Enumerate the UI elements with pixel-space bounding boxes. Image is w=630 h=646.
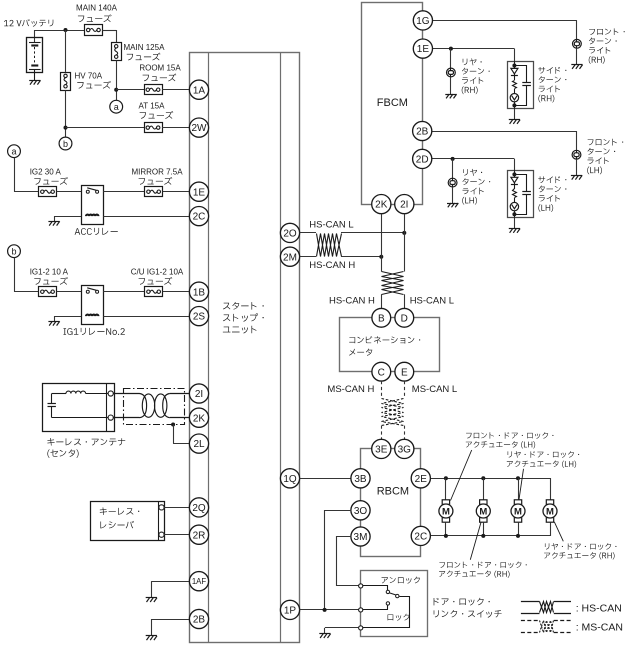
ground <box>146 598 157 603</box>
wire <box>300 478 351 480</box>
pin 2I start-stop unit <box>189 384 208 403</box>
pin D combination meter <box>395 308 414 327</box>
svg-text:2I: 2I <box>195 389 203 400</box>
pin E combination meter <box>395 362 414 381</box>
pin 2L start-stop unit <box>189 434 208 453</box>
pin 1AF start-stop unit <box>189 572 208 591</box>
node junction <box>402 231 406 235</box>
pin 3E RBCM <box>372 439 391 458</box>
svg-text:MS-CAN H: MS-CAN H <box>327 384 374 395</box>
wire <box>54 216 81 218</box>
svg-text:E: E <box>401 367 408 378</box>
switch terminal <box>359 626 363 630</box>
svg-text:M: M <box>442 506 450 517</box>
wire <box>433 48 515 50</box>
wire <box>103 191 144 193</box>
wire <box>163 191 190 193</box>
svg-text:: HS-CAN: : HS-CAN <box>576 602 622 614</box>
node a <box>110 100 123 113</box>
svg-text:: MS-CAN: : MS-CAN <box>576 622 623 634</box>
node b <box>59 137 72 150</box>
svg-text:C/U IG1-2 10A: C/U IG1-2 10A <box>131 268 184 277</box>
wire <box>65 90 67 137</box>
svg-text:MAIN 140A: MAIN 140A <box>76 4 118 13</box>
svg-text:2D: 2D <box>416 155 429 166</box>
wire <box>116 89 144 91</box>
ground <box>571 175 582 179</box>
wire MS-CAN <box>381 426 383 440</box>
node junction <box>451 157 455 161</box>
keyless antenna box <box>43 384 115 432</box>
wire <box>54 316 81 318</box>
svg-text:1Q: 1Q <box>283 474 297 485</box>
wire <box>404 233 406 272</box>
start-stop unit box <box>190 53 300 643</box>
svg-text:HS-CAN L: HS-CAN L <box>309 220 353 231</box>
svg-text:2B: 2B <box>416 127 429 138</box>
wire <box>341 256 381 258</box>
switch unlock label <box>382 577 420 584</box>
switch blade <box>390 593 397 595</box>
svg-text:1P: 1P <box>284 606 297 617</box>
wire <box>450 77 452 94</box>
svg-text:M: M <box>546 506 554 517</box>
wire <box>300 232 316 234</box>
svg-text:3G: 3G <box>398 445 412 456</box>
twisted pair HS-CAN vertical <box>382 272 404 295</box>
svg-text:1B: 1B <box>193 287 206 298</box>
pin 2I FBCM <box>395 195 414 214</box>
pin 1E FBCM <box>413 39 432 58</box>
svg-text:1E: 1E <box>417 44 430 55</box>
svg-text:1AF: 1AF <box>192 577 207 586</box>
wire <box>164 534 190 536</box>
lamp rear turn light LH <box>448 178 457 187</box>
node junction <box>444 534 448 538</box>
wire <box>325 627 359 629</box>
fuse MIRROR 7.5A <box>145 187 163 197</box>
svg-text:B: B <box>378 313 385 324</box>
wire <box>445 522 447 536</box>
front door lock actuator LH label <box>466 432 553 439</box>
wire MS-CAN <box>404 426 406 440</box>
svg-text:2W: 2W <box>192 123 208 134</box>
wire <box>452 187 454 203</box>
wire pointer <box>451 450 472 501</box>
svg-text:ROOM 15A: ROOM 15A <box>139 63 181 72</box>
pin 2M start-stop unit <box>280 247 299 266</box>
svg-text:2K: 2K <box>375 200 388 211</box>
wire MS-CAN <box>381 381 383 398</box>
svg-text:2R: 2R <box>193 530 206 541</box>
pin 1Q start-stop unit <box>280 469 299 488</box>
svg-text:1E: 1E <box>193 187 206 198</box>
svg-text:D: D <box>401 313 408 324</box>
wire <box>300 256 316 258</box>
wire <box>151 619 189 621</box>
pin 2O start-stop unit <box>280 223 299 242</box>
wire <box>162 89 190 91</box>
wire <box>576 159 578 175</box>
side turn light RH <box>508 61 534 108</box>
door lock link switch label <box>434 598 490 606</box>
svg-text:3B: 3B <box>354 474 367 485</box>
pin 2R start-stop unit <box>189 525 208 544</box>
relay ACC <box>82 186 104 225</box>
rear turn light LH label <box>463 169 482 176</box>
svg-text:C: C <box>378 367 385 378</box>
wire <box>103 291 144 293</box>
wire <box>518 478 520 500</box>
wire <box>66 127 145 129</box>
legend HS-CAN twisted pair <box>521 602 571 614</box>
rear door lock actuator LH label <box>508 451 580 458</box>
svg-text:HS-CAN H: HS-CAN H <box>329 295 375 306</box>
relay IG1 No.2 label <box>63 328 124 335</box>
svg-text:3M: 3M <box>354 532 368 543</box>
wire <box>404 214 406 233</box>
relay ACC label <box>75 228 118 235</box>
svg-text:2E: 2E <box>415 474 428 485</box>
battery B1 <box>27 38 43 81</box>
node junction <box>323 608 327 612</box>
capacitor antenna <box>48 394 109 418</box>
wire <box>163 291 190 293</box>
side turn light LH label <box>538 176 566 183</box>
wire <box>576 48 578 64</box>
fuse MAIN 125A <box>112 43 122 61</box>
pin 3B RBCM <box>351 469 370 488</box>
FBCM box <box>362 3 423 205</box>
motor rear door lock actuator RH <box>543 500 557 522</box>
pin B combination meter <box>372 308 391 327</box>
pin 2E RBCM <box>411 469 430 488</box>
inductor antenna coil <box>52 391 108 393</box>
wire <box>433 20 577 22</box>
pin 1G FBCM <box>413 11 432 30</box>
wire <box>404 294 406 308</box>
switch contact <box>396 594 399 597</box>
wire <box>363 609 388 611</box>
pin 1A start-stop unit <box>189 80 208 99</box>
svg-text:HS-CAN H: HS-CAN H <box>309 260 355 271</box>
node junction <box>481 476 485 480</box>
svg-text:2K: 2K <box>193 413 206 424</box>
wire <box>151 581 189 583</box>
lamp front turn light RH <box>573 39 582 48</box>
wire <box>381 257 383 272</box>
wire <box>514 218 516 229</box>
motor front door lock actuator RH <box>476 500 490 522</box>
switch terminal <box>359 584 363 588</box>
wire pointer <box>519 469 524 500</box>
motor rear door lock actuator LH <box>511 500 525 522</box>
fuse ROOM 15A <box>145 85 163 95</box>
svg-text:2C: 2C <box>193 212 206 223</box>
front door lock actuator RH label <box>439 562 526 569</box>
node junction <box>481 534 485 538</box>
svg-text:MS-CAN L: MS-CAN L <box>412 384 457 395</box>
legend MS-CAN twisted pair <box>521 621 571 633</box>
ground <box>29 80 40 84</box>
svg-text:RBCM: RBCM <box>377 485 409 497</box>
ground <box>48 221 59 225</box>
keyless receiver box <box>91 501 165 540</box>
svg-text:MAIN 125A: MAIN 125A <box>124 43 166 52</box>
relay IG1 No.2 <box>82 286 104 325</box>
svg-text:2M: 2M <box>283 252 297 263</box>
pin 3O RBCM <box>351 501 370 520</box>
svg-text:1G: 1G <box>416 16 430 27</box>
svg-text:2Q: 2Q <box>192 503 206 514</box>
wire pointer <box>554 522 563 542</box>
wire <box>450 49 452 69</box>
switch terminal <box>359 608 363 612</box>
fuse MAIN 140A <box>85 25 103 36</box>
RBCM box <box>361 449 421 557</box>
pin 2S start-stop unit <box>189 307 208 326</box>
wire <box>431 479 551 500</box>
svg-text:HV 70A: HV 70A <box>75 72 103 81</box>
wire <box>103 216 189 218</box>
wire <box>325 511 352 610</box>
svg-text:2L: 2L <box>193 439 205 450</box>
fuse C/U IG1-2 10A <box>145 287 163 297</box>
pin 2D FBCM <box>413 149 432 168</box>
wire <box>431 523 551 536</box>
wire <box>173 425 175 444</box>
fuse AT 15A <box>145 123 163 133</box>
wire <box>300 609 359 611</box>
wire <box>116 61 118 101</box>
node junction <box>516 476 520 480</box>
wire <box>381 294 383 308</box>
lamp front turn light LH <box>572 150 581 159</box>
wire <box>445 478 447 500</box>
pin 2B FBCM <box>413 121 432 140</box>
svg-text:2I: 2I <box>400 200 408 211</box>
svg-text:3E: 3E <box>375 445 388 456</box>
wire <box>518 522 520 536</box>
svg-text:3O: 3O <box>354 506 368 517</box>
rear door lock actuator RH label <box>545 543 617 550</box>
svg-text:HS-CAN L: HS-CAN L <box>410 295 454 306</box>
wire <box>57 191 82 193</box>
wire <box>337 537 359 586</box>
pin 1P start-stop unit <box>280 600 299 619</box>
svg-text:AT 15A: AT 15A <box>139 101 166 110</box>
wire <box>363 597 410 628</box>
wire MS-CAN <box>404 381 406 398</box>
motor front door lock actuator LH <box>439 500 453 522</box>
ground <box>447 203 458 207</box>
twisted pair HS-CAN <box>317 234 342 257</box>
front turn light RH label <box>589 28 625 35</box>
node junction <box>114 88 118 92</box>
combination meter box <box>340 318 440 372</box>
door lock link switch box <box>361 571 428 637</box>
pin C combination meter <box>372 362 391 381</box>
node junction <box>64 126 68 130</box>
svg-text:1A: 1A <box>193 85 206 96</box>
twisted pair antenna <box>113 394 189 418</box>
shield box <box>124 389 185 425</box>
wire <box>14 158 16 192</box>
pin 3M RBCM <box>351 527 370 546</box>
pin 2K FBCM <box>372 195 391 214</box>
pin 2C start-stop unit <box>189 207 208 226</box>
fuse HV 70A <box>61 73 71 91</box>
side turn light RH label <box>538 67 566 74</box>
rear turn light RH label <box>463 58 482 65</box>
fuse IG1-2 10A <box>39 287 57 297</box>
wire <box>341 232 404 234</box>
node junction <box>449 47 453 51</box>
wire <box>483 478 485 500</box>
svg-text:M: M <box>514 506 522 517</box>
keyless receiver label <box>100 507 140 515</box>
ground <box>48 321 59 325</box>
node junction <box>379 255 383 259</box>
pin 2C RBCM <box>411 526 430 545</box>
front turn light LH label <box>588 139 624 146</box>
svg-text:b: b <box>63 139 68 149</box>
node shield junction <box>171 423 175 427</box>
svg-text:M: M <box>479 506 487 517</box>
ground <box>509 229 520 233</box>
battery label <box>4 19 53 27</box>
node junction <box>64 28 68 32</box>
keyless antenna label <box>47 438 125 446</box>
pin 1B start-stop unit <box>189 282 208 301</box>
svg-text:b: b <box>11 247 16 257</box>
svg-text:IG2 30 A: IG2 30 A <box>30 168 62 177</box>
switch contact <box>386 590 389 593</box>
svg-text:a: a <box>114 102 119 112</box>
start-stop unit label <box>223 302 264 310</box>
wire <box>65 30 67 72</box>
ground <box>571 65 582 69</box>
wire <box>162 127 190 129</box>
svg-text:2S: 2S <box>193 312 206 323</box>
pin 2K start-stop unit <box>189 408 208 427</box>
svg-text:MIRROR 7.5A: MIRROR 7.5A <box>131 168 183 177</box>
wire <box>14 258 16 292</box>
wire <box>164 507 190 509</box>
ground <box>319 634 330 639</box>
switch contact <box>386 602 389 605</box>
wire <box>432 131 577 133</box>
wire <box>381 214 383 257</box>
svg-text:a: a <box>11 147 16 157</box>
twisted pair MS-CAN <box>382 399 404 426</box>
svg-text:2C: 2C <box>414 532 427 543</box>
receiver connector pins <box>159 505 164 510</box>
wire <box>363 586 388 591</box>
switch lock label <box>388 614 410 621</box>
lamp rear turn light RH <box>447 68 456 77</box>
pin 2Q start-stop unit <box>189 498 208 517</box>
wire <box>387 605 389 610</box>
svg-text:2B: 2B <box>193 615 206 626</box>
combination meter label <box>349 336 420 343</box>
ground <box>146 636 157 641</box>
pin 2B start-stop unit <box>189 609 208 628</box>
wire <box>102 30 116 32</box>
wire <box>34 30 36 43</box>
node junction <box>444 476 448 480</box>
node junction <box>516 534 520 538</box>
side turn light LH <box>508 170 534 218</box>
fuse IG2 30A <box>39 187 57 197</box>
ground <box>445 94 456 98</box>
svg-text:FBCM: FBCM <box>377 97 408 109</box>
node b <box>8 245 21 258</box>
antenna connector pins <box>108 391 113 396</box>
ground <box>509 120 520 124</box>
pin 1E start-stop unit <box>189 182 208 201</box>
svg-text:2O: 2O <box>283 229 297 240</box>
pin 3G RBCM <box>395 439 414 458</box>
node a <box>8 145 21 158</box>
wire pointer <box>470 522 481 560</box>
wire <box>432 158 515 160</box>
wire <box>452 159 454 178</box>
svg-text:IG1-2 10 A: IG1-2 10 A <box>30 268 69 277</box>
pin 2W start-stop unit <box>189 118 208 137</box>
wire <box>514 109 516 120</box>
wire <box>57 291 82 293</box>
wire <box>483 522 485 536</box>
wire <box>103 316 189 318</box>
